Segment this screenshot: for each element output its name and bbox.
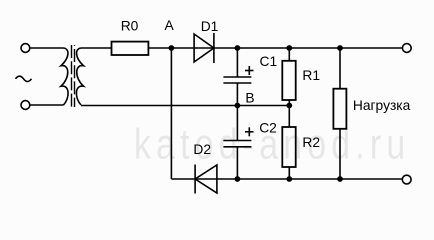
transformer T1 primary winding (61, 48, 68, 105)
svg-text:Нагрузка: Нагрузка (353, 98, 411, 113)
svg-text:D1: D1 (201, 19, 219, 34)
transformer core line 2 (74, 45, 76, 107)
svg-text:B: B (245, 91, 254, 106)
junction dot top C1 (235, 45, 241, 51)
svg-text:A: A (165, 18, 175, 33)
junction dot B R1R2 (286, 103, 292, 109)
load branch wires (339, 48, 341, 89)
wire bottom rail (171, 178, 402, 180)
node A junction dot (169, 45, 175, 51)
wire node A vertical (170, 48, 172, 179)
wire primary top (30, 47, 64, 49)
transformer T1 secondary winding (76, 48, 83, 105)
resistor R2 (282, 127, 295, 167)
plus sign C2 (245, 131, 254, 133)
junction dot bottom R2 (286, 176, 292, 182)
svg-text:R0: R0 (121, 19, 139, 34)
svg-text:R1: R1 (302, 68, 320, 83)
junction dot top R1 (286, 45, 292, 51)
terminal top-right (402, 44, 411, 53)
junction dot top load (337, 45, 343, 51)
svg-text:R2: R2 (302, 135, 320, 150)
svg-text:D2: D2 (193, 142, 211, 157)
svg-text:C2: C2 (259, 120, 277, 135)
wire top rail R0 to terminal (148, 47, 402, 49)
wire primary bottom (30, 104, 64, 106)
capacitor C1 (236, 48, 238, 77)
diode D2 (195, 165, 217, 193)
terminal top-left (21, 44, 30, 53)
plus sign C1 (245, 70, 254, 72)
AC sine symbol (16, 76, 32, 81)
junction dot bottom load (337, 176, 343, 182)
terminal bottom-right (402, 175, 411, 184)
wire secondary top to R0 (81, 47, 112, 49)
junction dot bottom C2 (235, 176, 241, 182)
load rectangle (333, 89, 346, 129)
terminal bottom-left (21, 101, 30, 110)
transformer core line 1 (71, 45, 73, 107)
svg-text:C1: C1 (260, 54, 278, 69)
junction dot B C1 (235, 103, 241, 109)
resistor R1 (282, 61, 295, 100)
diode D1 (194, 34, 214, 62)
capacitor C2 (236, 106, 238, 141)
resistor R0 (112, 42, 149, 55)
wire B rail (81, 105, 289, 107)
